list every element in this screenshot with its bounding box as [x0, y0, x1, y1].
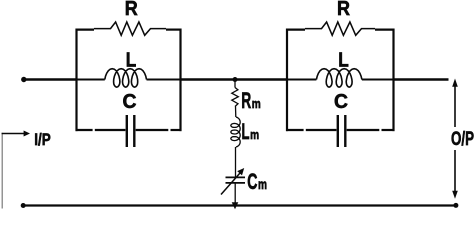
output arrow head up: [452, 79, 458, 87]
tank 2 box left edge: [286, 29, 288, 132]
tank 1 box left edge: [75, 29, 77, 132]
tank 2 box right edge: [392, 29, 394, 132]
capacitor C left plate (tank 1): [126, 115, 128, 147]
svg-text:C: C: [334, 91, 348, 113]
inductor L (tank 2): [316, 69, 362, 87]
wire middle branch stub Rm to Lm: [235, 107, 237, 118]
wire tank1 inductor left lead: [76, 79, 105, 81]
output arrow head down: [452, 191, 458, 199]
svg-text:C: C: [123, 91, 137, 113]
input arrow head I/P: [24, 131, 30, 137]
wire top rail right segment: [394, 78, 449, 80]
node input terminal dot top-left: [21, 77, 26, 82]
wire tank1 bottom edge left corner: [76, 129, 93, 131]
node junction arrow middle branch bottom: [232, 202, 239, 209]
svg-text:Lm: Lm: [242, 119, 260, 144]
wire middle branch lower stub: [234, 184, 236, 206]
wire tank2 bottom edge right inner: [347, 129, 380, 131]
svg-text:L: L: [126, 50, 137, 72]
node bottom-right terminal dot: [453, 203, 458, 208]
wire input arrow shaft: [2, 133, 25, 135]
wire output vertical lower: [454, 150, 456, 193]
wire tank2 inductor right lead: [362, 79, 395, 81]
wire input port vertical line: [1, 133, 3, 209]
inductor L (tank 1): [105, 69, 147, 87]
node bottom-left terminal dot: [21, 203, 26, 208]
wire middle branch stub Lm to Cm: [235, 147, 237, 177]
svg-text:Rm: Rm: [241, 88, 261, 113]
svg-text:R: R: [337, 0, 350, 20]
wire tank1 inductor right lead: [147, 79, 182, 81]
wire tank1 bottom edge right inner: [136, 129, 169, 131]
capacitor Cm bottom plate: [226, 182, 246, 184]
resistor Rm: [232, 88, 239, 107]
wire tank2 bottom edge left corner: [286, 129, 304, 131]
wire top rail left segment: [23, 78, 76, 80]
wire tank2 top edge left corner: [286, 29, 305, 31]
node junction dot middle branch top: [233, 77, 238, 82]
resistor R (tank 1): [94, 22, 166, 35]
capacitor Cm top plate: [226, 176, 246, 178]
wire output vertical upper: [454, 85, 456, 127]
wire tank2 bottom edge left inner: [306, 129, 337, 131]
capacitor Cm variable arrow shaft: [221, 172, 241, 194]
wire tank1 top edge left corner: [76, 29, 95, 31]
wire tank1 bottom edge left inner: [95, 129, 126, 131]
wire tank2 inductor left lead: [286, 79, 316, 81]
svg-text:Cm: Cm: [247, 169, 267, 194]
capacitor Cm variable arrow head: [237, 168, 244, 175]
wire tank1 top edge right corner: [166, 29, 182, 31]
wire middle branch upper stub: [234, 80, 236, 88]
svg-text:R: R: [125, 0, 138, 20]
capacitor C right plate (tank 1): [133, 115, 135, 147]
wire tank1 bottom edge right corner: [171, 129, 182, 131]
inductor Lm: [231, 117, 240, 147]
svg-text:I/P: I/P: [34, 130, 51, 149]
wire tank2 bottom edge right corner: [382, 129, 395, 131]
capacitor C right plate (tank 2): [344, 115, 346, 147]
resistor R (tank 2): [305, 22, 375, 35]
tank 1 box right edge: [179, 29, 181, 132]
wire bottom rail: [23, 204, 456, 206]
capacitor C left plate (tank 2): [337, 115, 339, 147]
wire tank2 top edge right corner: [375, 29, 395, 31]
svg-text:L: L: [338, 50, 349, 72]
wire top rail between tanks: [181, 78, 287, 80]
svg-text:O/P: O/P: [451, 129, 474, 150]
